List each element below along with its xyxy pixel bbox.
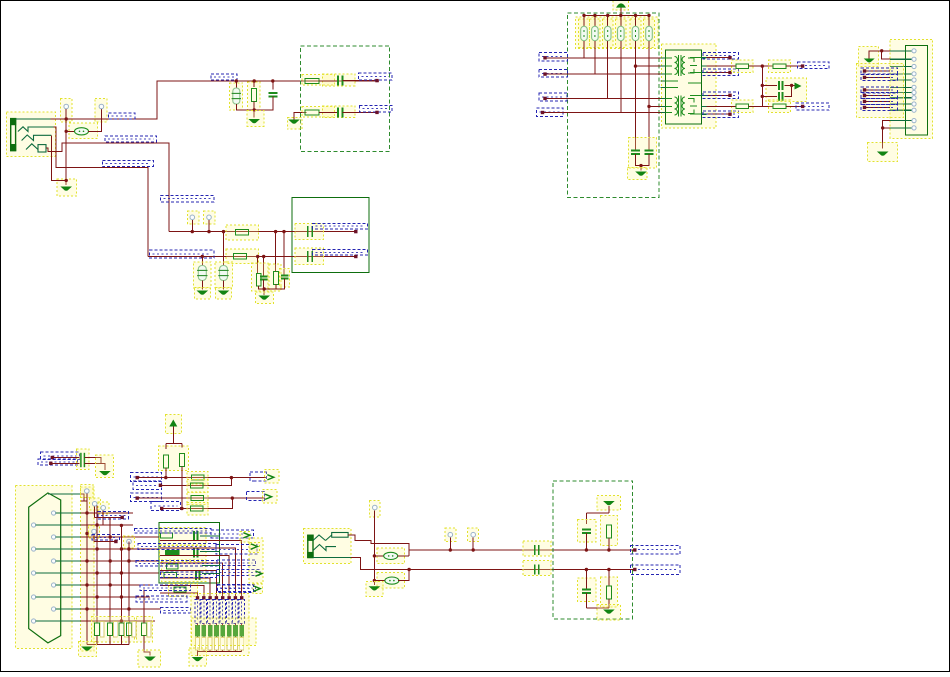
junction (761, 64, 764, 67)
ground (603, 501, 615, 505)
ferrite bead L2 (384, 552, 398, 559)
pin X2 right 2 (52, 535, 56, 539)
resistor R12 (604, 26, 611, 41)
junction (207, 230, 210, 233)
highlight R13 (616, 19, 627, 48)
highlight ground (287, 118, 302, 130)
net junction (543, 56, 546, 59)
net junction (159, 484, 162, 487)
pin X2 right 4 (52, 583, 56, 587)
highlight R37 (601, 577, 618, 607)
highlight C19 (523, 561, 551, 576)
resistor R1 (252, 89, 257, 102)
wire to C5 (223, 232, 225, 265)
capacitor C3 (338, 107, 343, 117)
wire array col x216.4 (160, 571, 216, 597)
resistor R2 (305, 78, 319, 83)
highlight R6 C9 (252, 263, 269, 291)
junction (180, 507, 183, 510)
highlight J2 (890, 39, 933, 138)
highlight R25 (187, 502, 208, 515)
pin tip contact (16, 118, 51, 120)
ground (603, 610, 615, 614)
wire (275, 284, 277, 289)
wire H2 (545, 73, 665, 75)
highlight R14 (630, 19, 641, 48)
resistor (119, 623, 124, 636)
switch contact 2 (313, 545, 336, 551)
junction (109, 535, 112, 538)
junction (373, 579, 376, 582)
value box (202, 638, 206, 651)
wire (608, 570, 610, 587)
junction (127, 607, 130, 610)
resistor R19 (773, 104, 786, 109)
value box (221, 638, 225, 651)
junction (222, 230, 225, 233)
net flag (255, 571, 262, 576)
net junction (202, 596, 205, 599)
net label (861, 68, 898, 74)
highlight TP10 (370, 501, 381, 518)
switch contact 2 (18, 127, 54, 132)
wire TP1 to ground (65, 109, 67, 185)
wire R15 down to C11 (648, 41, 650, 150)
wire (762, 95, 777, 97)
highlight L1 (69, 123, 97, 139)
highlight C21 (578, 578, 597, 602)
highlight array row (192, 618, 257, 646)
wire row3 cont (232, 497, 265, 499)
pin X2 left 2 (31, 547, 35, 551)
pin wire (56, 536, 81, 538)
test point TP1 (64, 104, 69, 109)
highlight ground (138, 650, 161, 667)
junction (271, 79, 274, 82)
wire (784, 85, 791, 96)
pin J2-4 (912, 72, 916, 76)
net junction (633, 568, 636, 571)
highlight ground (57, 179, 77, 196)
wire (343, 111, 377, 113)
highlight R1 (248, 82, 261, 110)
transformer T1 upper core (679, 55, 682, 76)
capacitor C6 (281, 275, 289, 278)
junction (230, 476, 233, 479)
wire R10 to H1 (583, 41, 585, 58)
highlight flag (240, 532, 250, 543)
wire (865, 76, 891, 78)
highlight labels (857, 64, 904, 118)
pin wire (36, 620, 81, 622)
net flag (267, 475, 274, 480)
test point TP3 (190, 215, 195, 220)
wire (241, 624, 243, 626)
transformer T1 upper secondary coil (682, 57, 685, 75)
pin J2-10 (912, 108, 916, 112)
highlight C7 (295, 223, 324, 239)
net label out1 (359, 73, 392, 80)
resistor R10 (581, 26, 588, 41)
net junction (863, 69, 866, 72)
capacitor C4 (197, 266, 207, 281)
net label (861, 87, 898, 93)
wire (203, 636, 205, 651)
wire supply bar (166, 443, 182, 445)
transformer T1 upper secondary marks (688, 58, 697, 73)
ground (864, 59, 875, 63)
wire (203, 624, 205, 626)
value box (196, 638, 200, 651)
wire (608, 599, 610, 608)
wire (585, 533, 587, 550)
test point TP9 (127, 539, 132, 544)
wire row4 (162, 498, 233, 508)
net label row2 (150, 250, 214, 258)
highlight L2 (377, 548, 404, 564)
pin stub J2-11 (890, 120, 912, 122)
pin stub T1 right (702, 94, 707, 96)
wire lower out (351, 558, 635, 570)
resistor R17 (773, 64, 786, 69)
junction (235, 79, 238, 82)
junction (274, 230, 277, 233)
highlight (160, 546, 207, 561)
highlight TP2 (95, 99, 107, 123)
wire (228, 636, 230, 651)
net label T1 out4 (703, 111, 738, 118)
supply symbol (795, 83, 802, 90)
net label T1 out2 (703, 69, 738, 76)
pin wire (56, 584, 81, 586)
junction (263, 287, 266, 290)
net flag (254, 586, 261, 591)
transformer T1 frame (665, 50, 701, 124)
highlight C18 (523, 541, 551, 556)
wire (608, 506, 610, 513)
wire to C4 (201, 257, 203, 266)
capacitor C8 (308, 251, 313, 262)
wire bottom rail (236, 96, 272, 110)
net label (151, 502, 181, 511)
capacitor C10 (631, 150, 640, 154)
wire TP10 to ground (373, 510, 375, 585)
wire to R6 (257, 257, 259, 274)
pin J2-5 (912, 78, 916, 82)
highlight R10 (579, 19, 590, 48)
junction (880, 49, 883, 52)
capacitor C17 (196, 570, 200, 580)
pin J2-9 (912, 102, 916, 106)
wire (94, 541, 116, 543)
highlight R11 (590, 19, 601, 48)
wire cap rail (636, 154, 650, 166)
net junction (633, 548, 636, 551)
wire array rail (198, 650, 242, 652)
net label (796, 103, 829, 110)
ground (197, 291, 209, 295)
net label (250, 472, 266, 481)
wire T1 out4 (707, 113, 731, 115)
ferrite bead L3 (385, 577, 399, 584)
wire TP3 stem (191, 220, 193, 232)
wire (96, 636, 98, 645)
highlight L3 (377, 572, 404, 588)
wire (398, 570, 409, 581)
wire (52, 457, 79, 459)
net junction (208, 596, 211, 599)
wire (215, 624, 217, 626)
resistor (95, 623, 100, 636)
pin X2 left 5 (31, 619, 35, 623)
highlight TP1 (61, 99, 73, 123)
net label bus (138, 544, 216, 550)
net junction (354, 255, 357, 258)
net label vertical net (161, 195, 215, 202)
wire (786, 105, 803, 107)
capacitor C14 (81, 453, 85, 467)
value box (233, 638, 237, 651)
connector J2 frame (906, 46, 928, 136)
wire supply rail (584, 14, 649, 16)
wire (51, 462, 80, 464)
wire R14 down to C10 (635, 41, 637, 150)
wire (222, 624, 224, 626)
switch contact 4 (26, 144, 46, 152)
junction (282, 230, 285, 233)
junction (95, 547, 98, 550)
net label array 8 (239, 600, 244, 624)
junction (95, 523, 98, 526)
junction (120, 619, 123, 622)
highlight TP3 (188, 211, 200, 224)
net label (217, 569, 260, 575)
wire (241, 636, 243, 651)
net junction (196, 596, 199, 599)
net flag (265, 494, 272, 499)
wire (234, 636, 236, 651)
wire (865, 70, 891, 72)
wire (585, 593, 587, 608)
net label (211, 530, 253, 538)
junction (593, 14, 596, 17)
junction (607, 548, 610, 551)
highlight resistor array (191, 594, 249, 656)
resistor R16 (736, 64, 749, 69)
test point TP10 (373, 505, 378, 510)
highlight ground (366, 582, 383, 597)
net junction (354, 230, 357, 233)
wire T1 out3 (707, 94, 731, 96)
pin stub T1 left (660, 57, 665, 59)
highlight band (249, 538, 263, 583)
net label array 7 (233, 600, 238, 624)
net junction (541, 111, 544, 114)
pin J2-11 (912, 119, 916, 123)
highlight R30 (137, 617, 153, 643)
wire to C6 (283, 232, 285, 276)
wire center tap upper (636, 65, 666, 67)
net junction (234, 596, 237, 599)
junction (85, 511, 88, 514)
ground (635, 172, 647, 176)
junction (881, 126, 884, 129)
highlight TP7 (98, 502, 109, 514)
highlight TP8 (89, 526, 100, 539)
wire array col x229.1 (160, 556, 229, 597)
output filter frame (553, 481, 633, 619)
net label in1 (539, 53, 568, 61)
junction (253, 79, 256, 82)
resistor R30 (141, 623, 146, 636)
wire (84, 458, 101, 464)
pin stub J2-3 (890, 66, 912, 68)
resistor R14 (632, 26, 639, 41)
value box (100, 622, 104, 638)
highlight supply (166, 415, 182, 434)
net label ring net (102, 161, 153, 167)
ground (248, 119, 260, 123)
capacitor C15 (194, 531, 198, 540)
wire (749, 105, 773, 107)
resistor RN7 (233, 625, 237, 636)
highlight (169, 584, 198, 597)
junction (647, 105, 650, 108)
junction (120, 524, 123, 527)
wire ladder y513 (81, 512, 133, 514)
pin stub J2-1 (890, 50, 912, 52)
ground (144, 657, 156, 661)
junction (65, 130, 68, 133)
wire C4 to ground (201, 281, 203, 290)
pin wire (36, 524, 81, 526)
wire row2 (160, 478, 231, 486)
net junction (160, 507, 163, 510)
pin J2-7 (912, 90, 916, 94)
resistor R20 (163, 455, 168, 468)
wire shield (81, 494, 84, 501)
pin stub T1 left (660, 87, 665, 89)
ground (877, 152, 889, 156)
wire (586, 512, 609, 514)
junction (95, 595, 98, 598)
resistor R32 (165, 550, 179, 555)
wire (865, 89, 891, 91)
value box (132, 622, 136, 638)
highlight Y1 (229, 83, 242, 110)
wire (209, 624, 211, 626)
wire (707, 105, 737, 107)
pin stub J2-9 (890, 103, 912, 105)
ground (60, 187, 72, 191)
test point TP4 (207, 215, 212, 220)
net junction (121, 516, 124, 519)
resistor RN6 (227, 625, 231, 636)
resistor R33 (166, 564, 178, 569)
wire to ground (263, 289, 265, 295)
value box (227, 638, 231, 651)
net label (247, 492, 265, 501)
net label bus (140, 585, 191, 591)
junction (647, 14, 650, 17)
highlight C14 (77, 449, 90, 470)
wire TP7 stem (102, 511, 104, 526)
wire bus x128.9 (128, 542, 130, 624)
highlight T1 (661, 44, 716, 128)
resistor RN5 (221, 625, 225, 636)
highlight R4 (226, 225, 258, 240)
wire row3 (137, 497, 232, 499)
wire ladder y561 (81, 560, 159, 562)
wire TP5 stem (86, 494, 88, 501)
value box (113, 622, 117, 638)
pin X2 left 3 (31, 571, 35, 575)
net junction (728, 71, 731, 74)
wire H1 (545, 57, 665, 59)
highlight flag (253, 584, 262, 594)
wire R13 top lead (620, 15, 622, 27)
junction (761, 84, 764, 87)
wire ladder y597 (81, 596, 150, 598)
net junction (221, 596, 224, 599)
switch contact (313, 533, 348, 541)
highlight ground (247, 111, 264, 127)
wire (181, 467, 183, 509)
capacitor C13 (779, 92, 783, 101)
wire ladder y525 (81, 524, 133, 526)
junction (619, 14, 622, 17)
test point TP11 (448, 532, 453, 537)
wire (128, 636, 130, 645)
transformer T1 upper primary coil (675, 57, 678, 75)
wire (81, 500, 87, 502)
net label (211, 74, 237, 80)
net junction (863, 88, 866, 91)
wire (228, 624, 230, 626)
pin J2-3 (912, 64, 916, 68)
capacitor C7 (308, 226, 313, 237)
highlight X3 (304, 529, 352, 564)
capacitor C9 (260, 276, 268, 279)
resistor R18 (736, 104, 749, 109)
junction (85, 583, 88, 586)
highlight R24 (187, 492, 208, 505)
net junction (863, 100, 866, 103)
pin X2 right 5 (52, 607, 56, 611)
pin wire (56, 512, 81, 514)
net junction (215, 596, 218, 599)
value box (208, 638, 212, 651)
highlight C6 (280, 269, 290, 288)
capacitor C21 (582, 590, 591, 594)
wire ladder y609 (81, 608, 161, 610)
net label contact4 net (105, 136, 156, 142)
pin stub J2-12 (890, 127, 912, 129)
net label T1 out3 (703, 92, 738, 99)
net label in2 (539, 69, 568, 77)
wire to R7 (275, 232, 277, 272)
resistor R24 (191, 496, 204, 501)
net junction (136, 496, 139, 499)
junction (606, 14, 609, 17)
T1 middle pin lines (665, 81, 701, 88)
resistor R23 (190, 483, 203, 488)
wire (181, 444, 183, 448)
wire center tap lower (649, 105, 665, 107)
filter group frame (300, 46, 389, 151)
isolation group frame (568, 13, 660, 197)
wire TP11 stem (449, 537, 451, 550)
